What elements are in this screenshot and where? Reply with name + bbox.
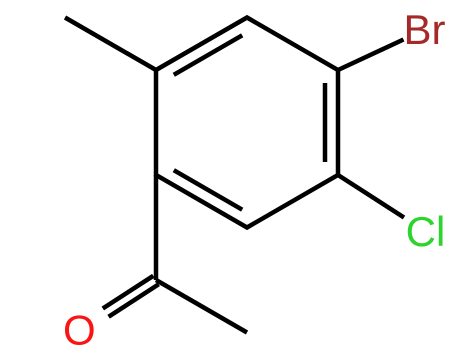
wire: C7=O double bond line 1 xyxy=(103,276,154,309)
wire: C7=O double bond line 2 xyxy=(109,284,159,317)
svg-text:Cl: Cl xyxy=(406,208,446,255)
wire: bond V3 to Cl xyxy=(338,175,404,218)
wire: bond V5 to carbonyl C7 xyxy=(154,175,159,280)
wire: bond C7 to ketone methyl xyxy=(156,280,247,333)
wire: aromatic inner double line on edge V6-V1 xyxy=(174,35,242,75)
wire: bond V2 to Br xyxy=(338,40,404,71)
svg-text:O: O xyxy=(63,306,96,353)
wire: methyl bond CH3 to ring C2 (V6) xyxy=(65,18,156,71)
svg-text:Br: Br xyxy=(404,6,446,53)
wire: aromatic inner double line on edge V2-V3 xyxy=(323,83,328,162)
wire: benzene ring outline V6-V1-V2-V3-V4-V5-V6 xyxy=(156,18,338,228)
wire: aromatic inner double line on edge V4-V5 xyxy=(174,170,242,210)
